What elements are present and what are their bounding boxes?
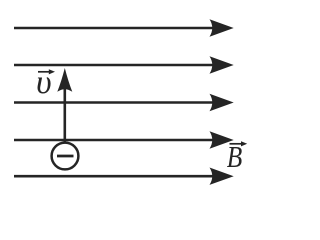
svg-text:υ: υ [36, 64, 52, 101]
svg-text:B: B [227, 141, 243, 175]
